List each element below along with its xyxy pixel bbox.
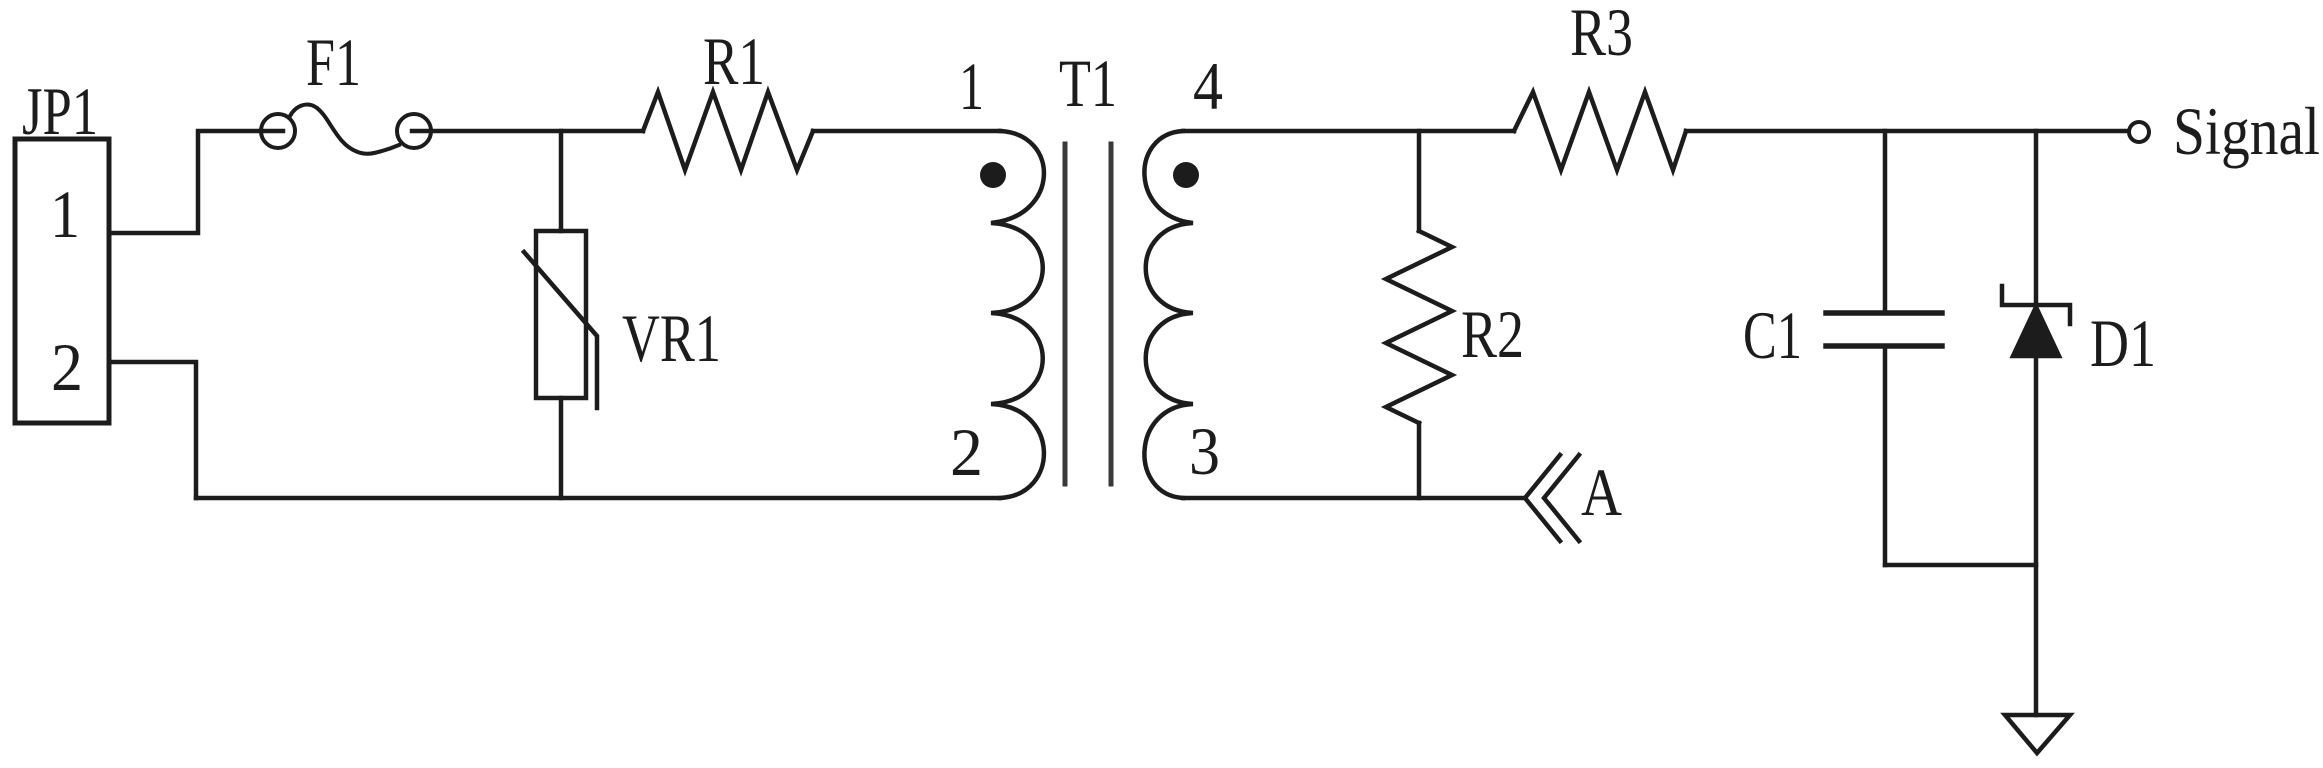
wire secondary top to R3 xyxy=(1183,129,1514,134)
fuse F1 xyxy=(261,114,295,148)
svg-text:Signal: Signal xyxy=(2173,93,2320,169)
svg-text:1: 1 xyxy=(50,176,80,252)
wire bottom rail primary xyxy=(196,496,1000,501)
transformer T1 core xyxy=(1063,144,1068,484)
svg-text:R2: R2 xyxy=(1461,296,1524,372)
svg-text:R1: R1 xyxy=(703,23,765,99)
svg-text:4: 4 xyxy=(1193,48,1223,124)
svg-text:1: 1 xyxy=(959,48,984,124)
svg-text:T1: T1 xyxy=(1059,45,1117,121)
svg-text:JP1: JP1 xyxy=(22,73,98,149)
svg-text:2: 2 xyxy=(950,414,983,490)
svg-text:A: A xyxy=(1581,454,1622,530)
wire R3 to Signal terminal xyxy=(1686,129,2127,134)
zener diode D1 xyxy=(2034,131,2039,305)
resistor R2 xyxy=(1417,131,1422,231)
Signal terminal xyxy=(2129,122,2149,142)
node A connector xyxy=(1525,455,1560,541)
wire fuse to R1 (junction with VR1) xyxy=(412,129,643,134)
varistor VR1 xyxy=(559,131,564,231)
ground xyxy=(2005,715,2070,753)
svg-text:VR1: VR1 xyxy=(622,300,721,376)
svg-text:D1: D1 xyxy=(2090,305,2156,381)
svg-text:2: 2 xyxy=(51,329,83,405)
secondary polarity dot xyxy=(1173,162,1199,188)
wire JP1 pin1 to fuse xyxy=(109,131,261,233)
transformer T1 primary winding xyxy=(991,131,1044,498)
svg-text:F1: F1 xyxy=(306,24,361,100)
svg-text:C1: C1 xyxy=(1743,297,1802,373)
capacitor C1 xyxy=(1883,131,1888,311)
svg-text:R3: R3 xyxy=(1570,0,1633,70)
svg-text:3: 3 xyxy=(1189,413,1220,489)
wire secondary bottom to node A xyxy=(1183,496,1525,501)
wire JP1 pin2 down to bottom rail xyxy=(109,362,196,498)
wire R1 to transformer primary xyxy=(813,129,1000,134)
resistor R1 xyxy=(643,92,813,170)
resistor R3 xyxy=(1514,92,1686,170)
wire C1 bottom to D1 bottom xyxy=(1885,563,2036,568)
transformer T1 secondary winding xyxy=(1144,131,1193,498)
primary polarity dot xyxy=(980,162,1006,188)
connector JP1 xyxy=(15,139,109,423)
